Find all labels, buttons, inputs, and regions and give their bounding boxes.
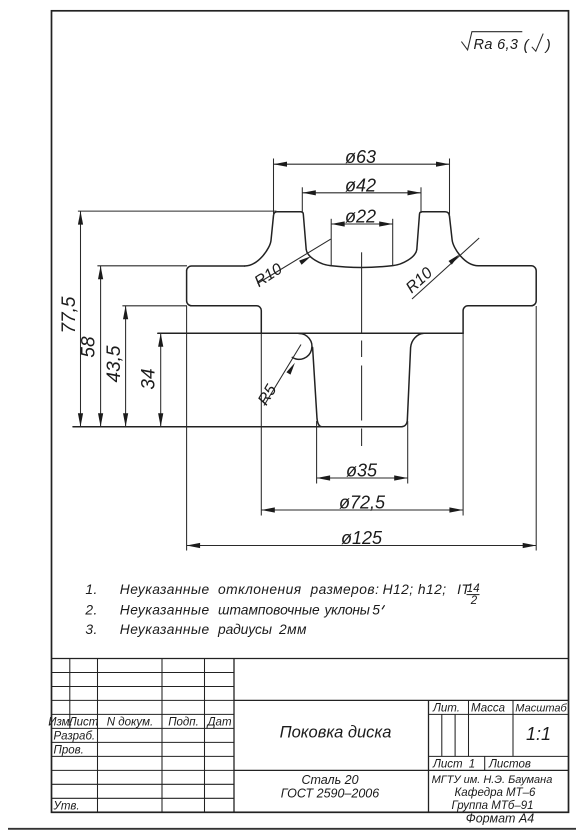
svg-text:Неуказанные: Неуказанные <box>120 603 210 618</box>
svg-text:): ) <box>544 37 551 54</box>
svg-text:ГОСТ 2590–2006: ГОСТ 2590–2006 <box>281 787 379 801</box>
svg-text:2: 2 <box>470 595 478 607</box>
svg-text:Масса: Масса <box>471 702 505 714</box>
svg-text:Лист: Лист <box>432 758 463 770</box>
svg-text:Сталь 20: Сталь 20 <box>301 773 358 787</box>
svg-text:N докум.: N докум. <box>107 716 154 728</box>
svg-text:радиусы: радиусы <box>217 622 272 637</box>
svg-text:ø63: ø63 <box>345 147 376 167</box>
svg-text:Поковка диска: Поковка диска <box>280 723 392 741</box>
svg-text:ø72,5: ø72,5 <box>339 492 386 512</box>
svg-text:Дат: Дат <box>205 716 231 728</box>
svg-text:R10: R10 <box>252 261 286 291</box>
svg-text:1:1: 1:1 <box>526 724 551 744</box>
svg-text:Масштаб: Масштаб <box>515 702 567 714</box>
svg-text:Подп.: Подп. <box>168 716 199 728</box>
svg-text:ø22: ø22 <box>345 207 376 227</box>
svg-text:штамповочные: штамповочные <box>218 603 320 618</box>
svg-text:отклонения: отклонения <box>218 582 302 597</box>
svg-text:Формат А4: Формат А4 <box>466 811 534 825</box>
svg-text:14: 14 <box>467 583 480 595</box>
svg-text:43,5: 43,5 <box>104 345 125 382</box>
svg-text:5: 5 <box>372 603 380 618</box>
svg-text:R10: R10 <box>403 264 436 296</box>
svg-text:размеров:: размеров: <box>310 582 380 597</box>
svg-text:Листов: Листов <box>488 758 531 770</box>
svg-text:Лист: Лист <box>68 716 99 728</box>
svg-text:Лит.: Лит. <box>432 702 460 714</box>
svg-text:(: ( <box>524 37 531 54</box>
svg-text:Утв.: Утв. <box>53 800 80 812</box>
svg-text:h12;: h12; <box>418 582 447 597</box>
svg-text:2мм: 2мм <box>278 622 307 637</box>
svg-text:ø35: ø35 <box>346 460 378 480</box>
svg-text:Кафедра МТ–6: Кафедра МТ–6 <box>455 787 537 799</box>
svg-text:МГТУ им. Н.Э. Баумана: МГТУ им. Н.Э. Баумана <box>432 774 553 786</box>
svg-text:Н12;: Н12; <box>383 582 414 597</box>
svg-text:уклоны: уклоны <box>324 603 370 618</box>
svg-text:Пров.: Пров. <box>54 744 84 756</box>
svg-text:1.: 1. <box>85 582 97 597</box>
svg-text:ø42: ø42 <box>345 175 376 195</box>
svg-text:Неуказанные: Неуказанные <box>120 582 210 597</box>
svg-text:2.: 2. <box>84 603 97 618</box>
svg-text:3.: 3. <box>85 622 97 637</box>
svg-text:1: 1 <box>469 758 475 770</box>
svg-text:ø125: ø125 <box>341 528 383 548</box>
svg-text:Неуказанные: Неуказанные <box>120 622 210 637</box>
svg-text:77,5: 77,5 <box>59 296 80 333</box>
svg-text:Ra 6,3: Ra 6,3 <box>474 37 519 53</box>
svg-text:Разраб.: Разраб. <box>54 730 96 742</box>
svg-text:58: 58 <box>78 336 99 358</box>
svg-text:34: 34 <box>138 368 159 389</box>
